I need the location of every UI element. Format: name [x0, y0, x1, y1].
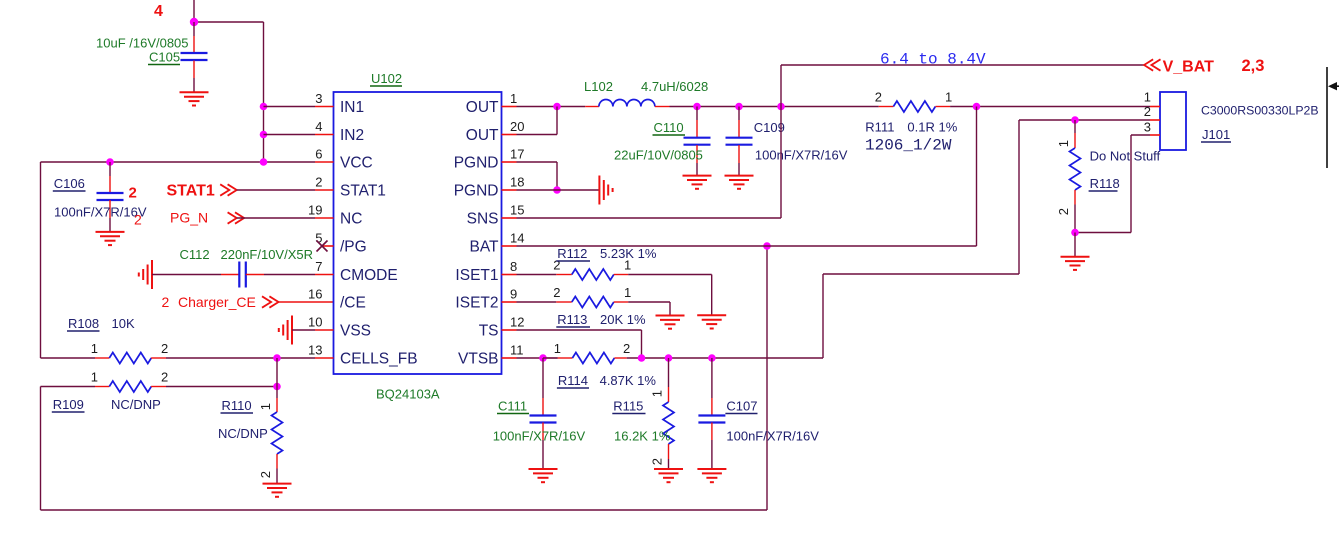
- svg-text:NC: NC: [340, 211, 362, 228]
- pin 6 VCC of U102: [315, 147, 373, 172]
- svg-text:18: 18: [510, 175, 524, 190]
- pin 16 /CE of U102: [308, 287, 366, 312]
- svg-text:10K: 10K: [112, 316, 135, 331]
- off-page connector PG_N: [170, 210, 244, 226]
- node R118 bottom junction: [1071, 229, 1079, 237]
- pin 15 SNS of U102: [467, 203, 525, 228]
- svg-text:4: 4: [154, 3, 163, 20]
- capacitor C110: [684, 107, 711, 176]
- R114 labels 4.87K 1%: [557, 373, 657, 388]
- R113 pin numbers: [553, 285, 631, 300]
- ground right of PGND18: [599, 176, 612, 205]
- svg-text:C107: C107: [726, 399, 757, 414]
- page ref 4 label: [154, 3, 163, 20]
- pin 13 CELLS_FB of U102: [308, 343, 418, 368]
- pin 7 CMODE of U102: [315, 259, 398, 284]
- svg-text:C111: C111: [498, 399, 527, 414]
- svg-text:TS: TS: [479, 323, 499, 340]
- svg-text:2: 2: [315, 175, 322, 190]
- pin 3 of J101: [1144, 120, 1160, 136]
- ground for C110: [683, 176, 712, 189]
- svg-text:NC/DNP: NC/DNP: [111, 397, 161, 412]
- J101 value label C3000RS00330LP2B: [1201, 104, 1319, 118]
- C110 ref label: [653, 120, 686, 135]
- pin 12 TS of U102: [479, 315, 525, 340]
- pin 4 IN2 of U102: [315, 119, 364, 144]
- node R110 top junction: [273, 383, 281, 391]
- off-page connector V_BAT: [1144, 59, 1214, 76]
- wire R108 row from left bus: [41, 357, 110, 359]
- svg-text:PG_N: PG_N: [170, 210, 208, 226]
- svg-text:1: 1: [624, 285, 631, 300]
- ground for R115: [654, 469, 683, 482]
- svg-text:OUT: OUT: [466, 99, 499, 116]
- svg-text:STAT1: STAT1: [340, 183, 386, 200]
- svg-text:2: 2: [161, 341, 168, 356]
- svg-text:VCC: VCC: [340, 155, 373, 172]
- R115 value label 16.2K 1%: [614, 429, 671, 444]
- wire CELLS_FB down to R110: [276, 358, 278, 387]
- svg-text:BAT: BAT: [470, 239, 500, 256]
- R113 labels 20K 1%: [556, 312, 646, 327]
- wire R109 to R110: [166, 386, 277, 388]
- U102 value label BQ24103A: [376, 387, 440, 402]
- svg-text:IN1: IN1: [340, 99, 364, 116]
- off-page connector STAT1: [167, 183, 237, 200]
- wire IN2: [264, 134, 316, 136]
- resistor R110: [272, 387, 283, 484]
- svg-text:2: 2: [553, 285, 560, 300]
- wire VTSB to J101 pin 2 route: [823, 120, 1150, 358]
- wire R108 to CELLS_FB pin 13: [166, 357, 315, 359]
- node IN2 junction: [260, 131, 268, 139]
- wire R109 row: [41, 386, 110, 388]
- capacitor C105: [181, 22, 208, 92]
- C111 ref label: [497, 399, 529, 414]
- U102 ref label: [370, 71, 402, 86]
- svg-text:Charger_CE: Charger_CE: [178, 294, 256, 310]
- resistor R115: [663, 358, 674, 469]
- wire IN1: [264, 106, 316, 108]
- R111 labels 0.1R 1%: [865, 120, 957, 135]
- node PGND junction: [553, 186, 561, 194]
- svg-text:C110: C110: [654, 120, 684, 135]
- svg-text:3: 3: [1144, 120, 1151, 135]
- svg-text:J101: J101: [1202, 127, 1230, 142]
- op-amp U102 BQ24103A body: [334, 92, 502, 374]
- svg-text:NC/DNP: NC/DNP: [218, 426, 268, 441]
- svg-text:100nF/X7R/16V: 100nF/X7R/16V: [726, 429, 819, 444]
- svg-text:100nF/X7R/16V: 100nF/X7R/16V: [755, 148, 848, 163]
- ground for C107: [697, 469, 726, 482]
- pin 17 PGND of U102: [454, 147, 525, 172]
- svg-text:1: 1: [1144, 90, 1151, 105]
- connector J101 body: [1160, 92, 1186, 150]
- svg-text:CMODE: CMODE: [340, 267, 398, 284]
- svg-text:R111: R111: [865, 120, 894, 135]
- svg-text:6.4 to 8.4V: 6.4 to 8.4V: [880, 51, 986, 69]
- svg-text:2: 2: [623, 341, 630, 356]
- R118 ref label: [1089, 176, 1120, 191]
- svg-text:11: 11: [510, 343, 524, 358]
- C111 value label 100nF/X7R/16V: [493, 429, 586, 444]
- ground for C109: [725, 176, 754, 189]
- node C111 junction: [539, 354, 547, 362]
- R111 footprint label 1206_1/2W: [865, 137, 952, 155]
- wire TS to VTSB rail: [517, 330, 642, 358]
- svg-text:/CE: /CE: [340, 295, 366, 312]
- node junction top: [190, 18, 198, 26]
- svg-text:2: 2: [258, 471, 273, 478]
- pin 2 STAT1 of U102: [315, 175, 386, 200]
- pin 3 IN1 of U102: [315, 91, 364, 116]
- wire ISET1 to R112: [517, 274, 572, 276]
- pin 1 of J101: [1144, 90, 1160, 107]
- pin 10 VSS of U102: [308, 315, 371, 340]
- svg-text:1: 1: [554, 341, 561, 356]
- wire input from top with page ref 4: [194, 0, 264, 162]
- inductor L102: [585, 100, 669, 107]
- svg-text:C109: C109: [754, 120, 785, 135]
- svg-text:9: 9: [510, 287, 517, 302]
- svg-text:19: 19: [308, 203, 322, 218]
- svg-text:1: 1: [91, 370, 98, 385]
- svg-text:3: 3: [315, 91, 322, 106]
- ground for R112: [697, 315, 726, 328]
- node SNS junction: [777, 103, 785, 111]
- svg-text:L102: L102: [584, 79, 613, 94]
- wire bottom bus BAT net: [41, 246, 768, 510]
- resistor R109: [109, 381, 166, 392]
- svg-text:4.87K 1%: 4.87K 1%: [600, 373, 657, 388]
- svg-text:7: 7: [315, 259, 322, 274]
- wire OUT20 loop: [517, 107, 558, 135]
- node C109 junction: [735, 103, 743, 111]
- svg-text:8: 8: [510, 259, 517, 274]
- R108 labels 10K: [67, 316, 135, 331]
- page ref 2 for PG_N: [134, 212, 142, 228]
- svg-text:ISET1: ISET1: [455, 267, 498, 284]
- svg-text:4.7uH/6028: 4.7uH/6028: [641, 79, 708, 94]
- svg-text:4: 4: [315, 119, 322, 134]
- svg-text:SNS: SNS: [467, 211, 499, 228]
- wire BAT pin 14 rail: [517, 107, 977, 247]
- R114 pin numbers: [554, 341, 630, 356]
- capacitor C107: [698, 358, 725, 469]
- page ref 2 for STAT1: [129, 185, 137, 202]
- C105 value label 10uF /16V/0805: [96, 36, 189, 51]
- wire PGND18 to ground: [517, 189, 600, 191]
- page ref 2 for Charger_CE: [162, 294, 170, 310]
- wire SNS to V_BAT rail: [517, 65, 1145, 218]
- C106 value label 100nF/X7R/16V: [54, 205, 147, 220]
- wire Charger_CE to pin 16: [279, 301, 334, 303]
- node C107 junction: [708, 354, 716, 362]
- svg-text:2: 2: [162, 294, 170, 310]
- svg-text:VTSB: VTSB: [458, 351, 498, 368]
- page ref 2,3 for V_BAT: [1242, 57, 1265, 75]
- svg-text:2: 2: [875, 90, 882, 105]
- wire R111 to J101 pin 1: [950, 106, 1150, 108]
- ground for R110: [263, 484, 292, 497]
- R112 pin numbers: [553, 258, 631, 273]
- svg-text:100nF/X7R/16V: 100nF/X7R/16V: [493, 429, 586, 444]
- svg-text:Do Not Stuff: Do Not Stuff: [1090, 149, 1161, 164]
- pin 14 BAT of U102: [470, 231, 525, 256]
- ground for R113: [656, 316, 685, 329]
- sheet boundary line: [1326, 67, 1328, 168]
- node OUT20 junction: [553, 103, 561, 111]
- svg-text:6: 6: [315, 147, 322, 162]
- wire left bus lower: [40, 387, 42, 511]
- svg-text:2: 2: [134, 212, 142, 228]
- node C110 junction: [693, 103, 701, 111]
- R111 pin numbers: [875, 90, 952, 105]
- wire PG_N to pin 19: [237, 217, 315, 219]
- svg-text:1: 1: [650, 390, 665, 397]
- svg-text:220nF/10V/X5R: 220nF/10V/X5R: [221, 247, 314, 262]
- wire R114 to route right: [627, 357, 823, 359]
- svg-text:16.2K 1%: 16.2K 1%: [614, 429, 671, 444]
- svg-text:R108: R108: [68, 316, 99, 331]
- wire C112 to CMODE pin 7: [246, 274, 315, 276]
- svg-text:1: 1: [258, 403, 273, 410]
- resistor R111: [879, 101, 950, 112]
- node R111 output junction: [973, 103, 981, 111]
- R109 labels NC/DNP: [52, 397, 161, 412]
- svg-text:20: 20: [510, 119, 524, 134]
- node BAT junction: [763, 242, 771, 250]
- svg-text:5.23K 1%: 5.23K 1%: [600, 246, 657, 261]
- net label 6.4 to 8.4V: [880, 51, 986, 69]
- wire PGND17 loop: [517, 162, 558, 190]
- svg-text:R109: R109: [53, 397, 84, 412]
- C110 value label 22uF/10V/0805: [614, 148, 703, 163]
- wire R112 to ground: [628, 275, 712, 316]
- svg-text:C105: C105: [149, 50, 180, 65]
- wire R113 to ground: [628, 302, 670, 316]
- wire STAT1 to pin 2: [237, 189, 315, 191]
- svg-text:1206_1/2W: 1206_1/2W: [865, 137, 952, 155]
- svg-text:1: 1: [945, 90, 952, 105]
- svg-text:/PG: /PG: [340, 239, 367, 256]
- resistor R108: [109, 353, 166, 364]
- svg-text:1: 1: [510, 91, 517, 106]
- svg-text:14: 14: [510, 231, 524, 246]
- svg-text:12: 12: [510, 315, 524, 330]
- off-page connector Charger_CE: [178, 294, 279, 310]
- pin 11 VTSB of U102: [458, 343, 523, 368]
- svg-text:ISET2: ISET2: [455, 295, 498, 312]
- node R118 top junction: [1071, 116, 1079, 124]
- svg-text:16: 16: [308, 287, 322, 302]
- wire ground to C112: [152, 274, 239, 276]
- svg-text:C3000RS00330LP2B: C3000RS00330LP2B: [1201, 104, 1319, 118]
- wire to ground stub: [1074, 233, 1076, 257]
- svg-text:R113: R113: [557, 312, 587, 327]
- C106 ref label: [53, 176, 86, 191]
- svg-text:R115: R115: [613, 399, 643, 414]
- svg-text:15: 15: [510, 203, 524, 218]
- ground for C111: [529, 469, 558, 482]
- J101 ref label: [1201, 127, 1231, 142]
- svg-text:2: 2: [161, 370, 168, 385]
- wire VCC rail: [41, 161, 316, 163]
- wire L102 to R111: [670, 106, 879, 108]
- svg-text:C106: C106: [54, 176, 85, 191]
- svg-text:2: 2: [129, 185, 137, 202]
- pin 20 OUT of U102: [466, 119, 525, 144]
- svg-text:2: 2: [1056, 208, 1071, 215]
- resistor R118: [1070, 120, 1081, 233]
- node TS junction: [638, 354, 646, 362]
- L102 labels 4.7uH/6028: [584, 79, 708, 94]
- node IN1 junction: [260, 103, 268, 111]
- C107 ref label: [725, 399, 757, 414]
- capacitor C106: [97, 162, 124, 232]
- pin 18 PGND of U102: [454, 175, 525, 200]
- ground left of VSS: [279, 316, 292, 345]
- svg-text:10uF /16V/0805: 10uF /16V/0805: [96, 36, 189, 51]
- resistor R113: [572, 297, 628, 308]
- svg-text:0.1R 1%: 0.1R 1%: [907, 120, 957, 135]
- svg-text:R114: R114: [558, 373, 588, 388]
- R115 pin numbers rotated: [650, 390, 665, 465]
- svg-text:20K 1%: 20K 1%: [600, 312, 646, 327]
- ground left of C112: [139, 260, 152, 289]
- wire left bus upper: [40, 162, 42, 358]
- svg-text:13: 13: [308, 343, 322, 358]
- svg-text:U102: U102: [371, 71, 402, 86]
- svg-text:22uF/10V/0805: 22uF/10V/0805: [614, 148, 703, 163]
- svg-text:100nF/X7R/16V: 100nF/X7R/16V: [54, 205, 147, 220]
- pin 8 ISET1 of U102: [455, 259, 517, 284]
- pin 1 OUT of U102: [466, 91, 517, 116]
- C112 labels 220nF/10V/X5R: [180, 247, 314, 262]
- C109 ref label: [754, 120, 785, 135]
- capacitor C111: [530, 358, 557, 469]
- svg-text:IN2: IN2: [340, 127, 364, 144]
- no-connect X on /PG pin 5: [317, 241, 328, 252]
- ground for C105: [180, 92, 209, 105]
- R112 labels 5.23K 1%: [556, 246, 657, 261]
- pin 9 ISET2 of U102: [455, 287, 517, 312]
- svg-text:2: 2: [1144, 104, 1151, 119]
- capacitor C112: [239, 262, 246, 288]
- svg-text:1: 1: [91, 341, 98, 356]
- C107 value label 100nF/X7R/16V: [726, 429, 819, 444]
- R118 labels Do Not Stuff: [1090, 149, 1161, 164]
- svg-text:17: 17: [510, 147, 524, 162]
- R115 ref label: [612, 399, 645, 414]
- pin 2 of J101: [1144, 104, 1160, 120]
- node VCC junction: [260, 158, 268, 166]
- svg-text:OUT: OUT: [466, 127, 499, 144]
- svg-text:R112: R112: [557, 246, 587, 261]
- ground for C106: [96, 232, 125, 245]
- svg-text:STAT1: STAT1: [167, 183, 215, 200]
- C109 value label 100nF/X7R/16V: [755, 148, 848, 163]
- svg-text:2: 2: [650, 458, 665, 465]
- svg-text:1: 1: [1056, 140, 1071, 147]
- resistor R112: [572, 269, 628, 280]
- node R115 junction: [665, 354, 673, 362]
- svg-text:R110: R110: [222, 398, 252, 413]
- wire VSS ground: [292, 329, 315, 331]
- R110 labels NC/DNP: [218, 398, 268, 441]
- R109 pin numbers: [91, 370, 168, 385]
- wire VTSB rail: [517, 357, 558, 359]
- ground for J101: [1061, 257, 1090, 270]
- sheet boundary arrow: [1328, 82, 1339, 90]
- svg-text:V_BAT: V_BAT: [1163, 59, 1214, 76]
- svg-text:VSS: VSS: [340, 323, 371, 340]
- C105 ref label: [148, 50, 180, 65]
- R110 pin numbers rotated: [258, 403, 273, 478]
- node CELLS_FB junction: [273, 354, 281, 362]
- svg-text:PGND: PGND: [454, 183, 499, 200]
- R108 pin numbers: [91, 341, 168, 356]
- pin 5 /PG of U102: [315, 231, 366, 256]
- svg-text:CELLS_FB: CELLS_FB: [340, 351, 418, 368]
- wire J101 pin 3 to ground: [1075, 135, 1150, 233]
- svg-text:10: 10: [308, 315, 322, 330]
- svg-text:PGND: PGND: [454, 155, 499, 172]
- pin 19 NC of U102: [308, 203, 362, 228]
- R118 pin numbers rotated: [1056, 140, 1071, 215]
- svg-text:BQ24103A: BQ24103A: [376, 387, 440, 402]
- wire ISET2 to R113: [517, 301, 572, 303]
- svg-text:C112: C112: [180, 247, 210, 262]
- svg-text:2,3: 2,3: [1242, 57, 1265, 75]
- capacitor C109: [726, 107, 753, 176]
- svg-text:R118: R118: [1090, 176, 1120, 191]
- wire OUT rail: [517, 106, 586, 108]
- resistor R114: [543, 353, 627, 364]
- node C106 junction: [106, 158, 114, 166]
